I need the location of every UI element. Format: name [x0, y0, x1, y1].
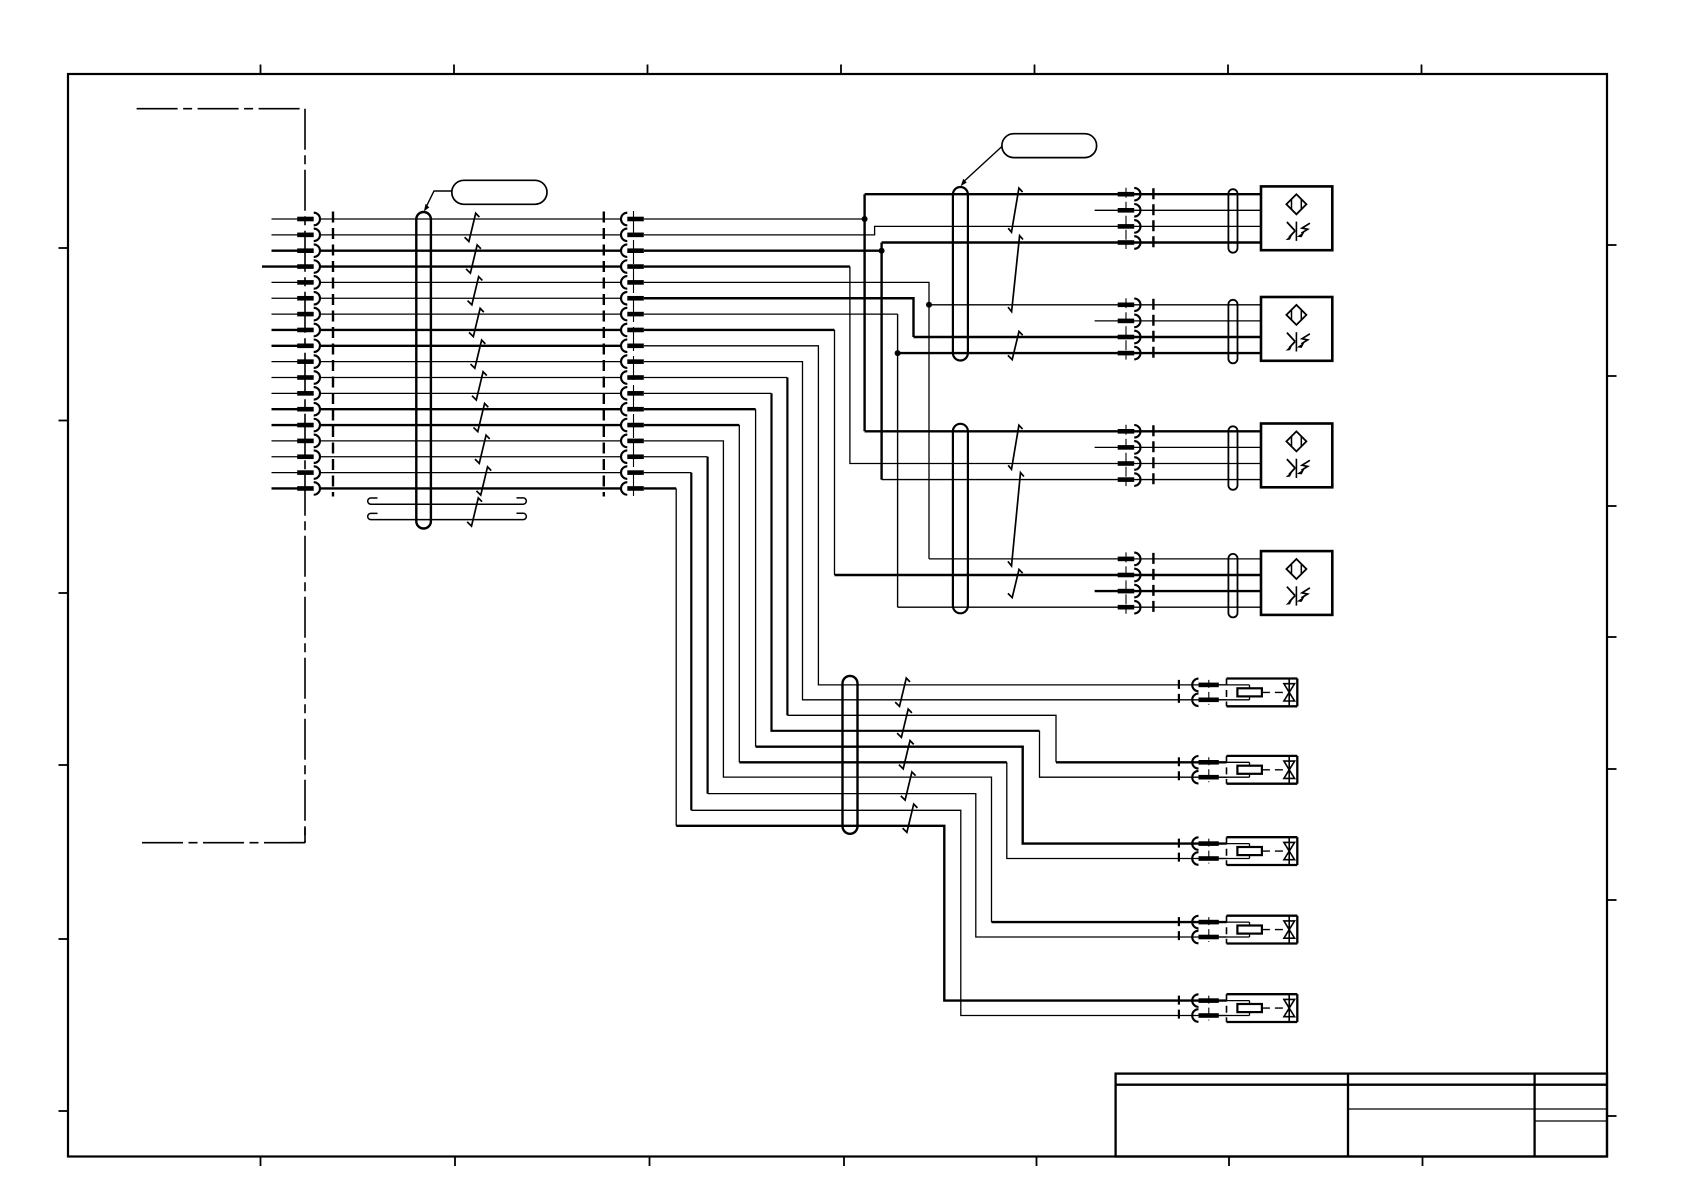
sensor S2 signal wire (pin3)	[914, 336, 1262, 338]
wire W13 to solenoid V3 pin1	[644, 408, 756, 410]
wire W8 drop to sensor S4 signal	[834, 330, 836, 575]
solenoid valve V5 connector and body	[1179, 994, 1297, 1022]
wire W15 to solenoid V4 pin1	[644, 441, 992, 922]
harness shield oval 1	[416, 212, 431, 529]
wire W14 run	[739, 761, 1007, 763]
net D vertical upper (sensor 2 ground)	[897, 314, 899, 353]
wire W2 to sensor S1 signal (pin3)	[644, 226, 1261, 234]
wire W8 to sensor S4 signal (pin2)	[644, 329, 835, 331]
photoelectric sensor S1	[1261, 186, 1332, 250]
wire W14 to solenoid V3 pin2	[644, 424, 740, 426]
twisted pair marks on solenoid feeders	[895, 678, 917, 832]
connector CN1 mating face dashed line	[332, 212, 334, 497]
wire W6 to sensor S2 signal (pin3)	[644, 298, 914, 337]
connector CN2 centerline dash-dot	[633, 211, 635, 497]
photoelectric sensor S2	[1261, 297, 1332, 361]
cable marks sensor cluster 2	[1008, 425, 1024, 597]
wire W5 to net C	[644, 282, 929, 304]
harness shield oval 2 (sensors 1-2 feeders)	[953, 187, 968, 361]
solenoid valve V4 connector and body	[1179, 916, 1297, 944]
wire W16 run	[708, 794, 1227, 937]
wire W4 drop to sensor S3 signal	[850, 267, 1261, 464]
wire W10 to solenoid V1 pin2	[644, 362, 1227, 700]
sensor S3 ground wire (pin4)	[882, 479, 1261, 481]
harness wires W1-W18 between CN1 and CN2	[320, 219, 621, 488]
sensor S1 spare stub (pin2)	[1095, 209, 1261, 211]
sensor S2 connector pins	[1118, 298, 1238, 363]
solenoid valve V1 connector and body	[1179, 679, 1297, 707]
controller unit outline (dash-dot box)	[137, 109, 305, 843]
wire W4 to sensor S3 signal (pin3)	[644, 265, 850, 267]
junction dot net A / W1	[862, 216, 868, 222]
wire W18 run	[676, 826, 1226, 1001]
connector CN2 mating face dashed line	[603, 212, 605, 497]
junction dot net C / sensor S2 supply	[926, 302, 932, 308]
sensor S3 supply wire (pin1)	[865, 430, 1261, 432]
photoelectric sensor S3	[1261, 424, 1332, 488]
sensor S2 ground wire (pin4)	[898, 352, 1261, 354]
shield drain wire A with curled ends	[368, 498, 527, 504]
wire W11 run	[787, 715, 1056, 762]
sensor S1 ground wire (pin4)	[882, 241, 1261, 243]
twisted pair marks on W1-W18	[465, 213, 492, 495]
wire W1 to net A	[644, 218, 865, 220]
shield drain wire B with curled ends	[368, 513, 527, 519]
harness shield oval 4 (solenoid feeders)	[843, 676, 858, 834]
wire W9 to solenoid V1 pin1	[644, 346, 1227, 685]
wire W13 drop	[755, 409, 757, 747]
wire W12 run	[772, 393, 1040, 730]
solenoid V3 pin2 wire	[1007, 762, 1227, 858]
wire W7 to net D	[644, 313, 898, 315]
solenoid valve V3 connector and body	[1179, 837, 1297, 865]
solenoid V2 pin1 wire	[1056, 761, 1227, 763]
net C vertical (sensor 2/4 supply)	[928, 305, 930, 559]
title block	[1116, 1074, 1607, 1157]
sensor S1 supply wire (pin1)	[865, 193, 1261, 195]
wire W17 to solenoid V5 pin2	[644, 472, 692, 474]
frame zone ticks top	[261, 65, 1422, 75]
junction dot net B / W3	[879, 248, 885, 254]
junction dot net D / sensor S2 ground	[895, 350, 901, 356]
wire W14 drop	[738, 425, 740, 762]
wire W13 run	[756, 747, 1227, 844]
sensor S4 supply wire (pin1)	[929, 558, 1261, 560]
net A vertical (sensor 1/3 supply)	[863, 194, 865, 431]
sensor S3 connector pins	[1118, 425, 1238, 490]
sensor S2 spare stub (pin2)	[1095, 320, 1261, 322]
frame zone ticks left	[59, 248, 69, 1111]
net B vertical (sensor 1/3 ground)	[880, 243, 882, 480]
solenoid V4 pin1 wire	[992, 921, 1227, 923]
connector CN1 (controller side) pin bars	[297, 213, 320, 495]
harness shield oval 3 (sensors 3-4 feeders)	[953, 424, 968, 614]
cable marks sensor cluster 1	[1008, 188, 1023, 360]
sensor S3 spare stub (pin2)	[1095, 446, 1261, 448]
net D vertical lower (sensor 4 ground)	[897, 353, 899, 607]
callout balloon 1 (harness label)	[424, 180, 547, 211]
wire W16 to solenoid V4 pin2	[644, 456, 708, 458]
wire W17 run	[691, 810, 1226, 1015]
callout balloon 2 (sensor harness label)	[961, 134, 1097, 186]
wire W11 drop	[786, 378, 788, 716]
wire W16 drop	[706, 457, 708, 794]
solenoid V2 pin2 wire	[1040, 731, 1227, 777]
wire W3 to net B	[644, 249, 882, 251]
sensor S4 spare stub (pin3)	[1095, 590, 1261, 592]
sensor S2 supply wire (pin1)	[929, 304, 1261, 306]
connector CN2 pin bars	[621, 213, 644, 495]
sensor S4 connector pins	[1118, 552, 1238, 617]
sensor S4 signal wire (pin2)	[835, 574, 1262, 576]
wire W18 to solenoid V5 pin1	[644, 487, 676, 489]
wire W17 drop	[690, 473, 692, 811]
frame zone ticks right	[1607, 245, 1617, 1116]
wire W12 to solenoid V2 pin2	[644, 392, 772, 394]
sensor S1 connector pins	[1118, 188, 1238, 253]
frame zone ticks bottom	[261, 1157, 1423, 1167]
wire W11 to solenoid V2 pin1	[644, 377, 788, 379]
wire W18 drop	[675, 488, 677, 825]
sensor S4 ground wire (pin4)	[898, 606, 1261, 608]
twisted pair mark on drain wires	[467, 498, 482, 526]
solenoid valve V2 connector and body	[1179, 756, 1297, 784]
photoelectric sensor S4	[1261, 551, 1332, 615]
connector CN1 lead stubs	[262, 219, 298, 488]
